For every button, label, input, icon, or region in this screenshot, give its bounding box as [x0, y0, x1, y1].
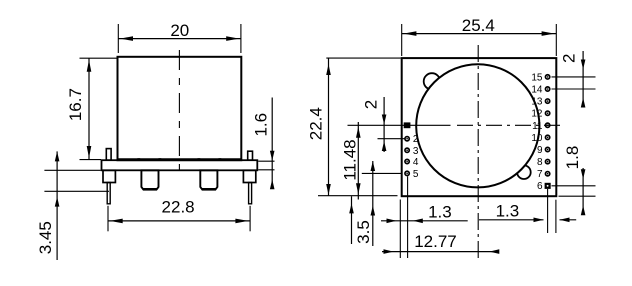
left view vertical centerline — [178, 50, 180, 178]
pin 15 extension line — [552, 76, 596, 78]
dim 25.4 extension lines — [401, 24, 403, 56]
pin 1 square pad — [404, 122, 411, 128]
dim 22.8 dimension line — [108, 220, 250, 222]
dim 12.77 dimension line — [382, 251, 497, 253]
svg-text:3.5: 3.5 — [354, 220, 373, 244]
pin 15 pad — [545, 75, 549, 79]
pin 11 pad — [545, 123, 549, 127]
sensor can circle — [416, 64, 539, 187]
dim 11.48 lower overflow line — [351, 196, 353, 244]
dim 20 extension lines — [117, 24, 119, 53]
pin 14 extension line — [552, 88, 596, 90]
dim 3.45 dimension line — [56, 151, 58, 260]
svg-text:3: 3 — [413, 146, 419, 157]
pin 13 pad — [545, 99, 549, 103]
svg-text:13: 13 — [531, 97, 543, 108]
dim 22.4 extension line top — [326, 57, 401, 59]
dim 22.4 extension line bottom — [318, 195, 398, 197]
svg-text:12: 12 — [531, 109, 543, 120]
svg-text:25.4: 25.4 — [462, 16, 495, 35]
dim 2 left dimension line — [383, 97, 385, 152]
svg-text:5: 5 — [413, 169, 419, 180]
svg-text:20: 20 — [170, 21, 189, 40]
dim 22.4 dimension line — [328, 58, 330, 196]
svg-text:1.8: 1.8 — [563, 146, 582, 170]
body bottom seam line — [118, 158, 241, 160]
svg-text:10: 10 — [531, 133, 543, 144]
pin 5 pad — [405, 171, 409, 175]
svg-text:6: 6 — [537, 181, 543, 192]
svg-text:16.7: 16.7 — [66, 88, 85, 121]
dim 2 right dimension line — [582, 51, 584, 106]
left pin block below flange — [103, 170, 115, 182]
dim 25.4 dimension line — [402, 33, 557, 35]
left standoff foot — [141, 170, 158, 189]
package bottom right extension line — [559, 195, 596, 197]
svg-text:2: 2 — [362, 100, 381, 109]
svg-text:22.4: 22.4 — [307, 107, 326, 140]
pin 7 pad — [545, 172, 549, 176]
bottom view horizontal centerline — [348, 124, 451, 126]
dim 1.6 extension lines — [258, 160, 274, 162]
pin 5 extension line — [362, 172, 402, 174]
dim 1.3 right dimension line — [479, 219, 544, 221]
svg-text:15: 15 — [531, 72, 543, 83]
pin 8 pad — [545, 159, 549, 163]
right standoff foot — [200, 170, 217, 189]
svg-text:2: 2 — [413, 134, 419, 145]
pin 6 square pad — [545, 183, 551, 189]
svg-text:1.3: 1.3 — [496, 201, 520, 220]
bottom view vertical centerline — [477, 45, 479, 258]
SE locating bump ear — [517, 165, 531, 179]
dim 20 dimension line — [118, 38, 241, 40]
left view base flange — [102, 160, 258, 170]
svg-text:2: 2 — [560, 54, 579, 63]
dim 3.5 dimension line — [372, 161, 374, 246]
svg-text:11.48: 11.48 — [341, 139, 360, 180]
svg-text:7: 7 — [537, 169, 543, 180]
dim 1.3 right extension line (package edge) — [555, 200, 557, 233]
pin 10 pad — [545, 135, 549, 139]
NW locating bump ear — [424, 73, 440, 89]
dim 1.3 left extension line (package edge) — [399, 200, 401, 259]
dim 22.8 extension lines — [107, 206, 109, 232]
pin 12 pad — [545, 111, 549, 115]
dim 1.3 right extension line (pin column) — [547, 189, 549, 233]
svg-text:3.45: 3.45 — [36, 221, 55, 254]
svg-text:9: 9 — [537, 145, 543, 156]
dim 1.3 left dimension line — [381, 220, 468, 222]
dim 1.8 dimension line — [582, 168, 584, 214]
dim 3.45 extension lines — [44, 169, 100, 171]
pin 2 extension line — [378, 138, 405, 140]
svg-text:22.8: 22.8 — [162, 198, 195, 217]
svg-text:14: 14 — [531, 85, 543, 96]
dim 1.3 left extension line (pin column) — [407, 176, 409, 258]
pin 6 extension line — [552, 185, 596, 187]
pin 9 pad — [545, 147, 549, 151]
right pin post above flange — [248, 151, 253, 160]
left lead pin — [107, 183, 110, 204]
right pin block below flange — [243, 170, 255, 182]
pin 3 pad — [405, 148, 409, 152]
left pin post above flange — [106, 149, 111, 161]
right lead pin — [249, 183, 252, 204]
svg-text:1.6: 1.6 — [252, 113, 271, 137]
svg-text:11: 11 — [532, 121, 543, 132]
svg-text:12.77: 12.77 — [414, 232, 457, 251]
dim 16.7 dimension line — [88, 58, 90, 159]
pin 14 pad — [545, 87, 549, 91]
dim 11.48 dimension line — [357, 122, 359, 200]
dim 16.7 extension lines — [80, 57, 118, 59]
svg-text:8: 8 — [537, 157, 543, 168]
svg-text:4: 4 — [413, 157, 419, 168]
pin 2 pad — [405, 137, 409, 141]
dim 1.6 dimension line — [271, 98, 273, 189]
pin tick marks on body bottom seam — [137, 158, 140, 161]
bottom view package outline — [402, 58, 557, 196]
svg-text:1.3: 1.3 — [428, 202, 452, 221]
left view sensor body (can) — [118, 57, 242, 160]
pin 4 pad — [405, 159, 409, 163]
